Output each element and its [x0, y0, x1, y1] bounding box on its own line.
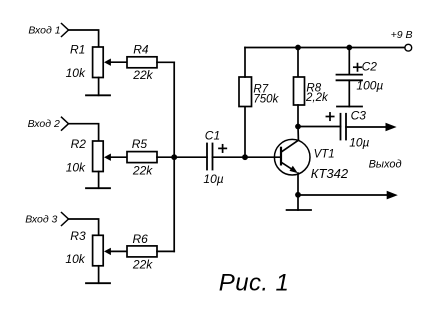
svg-text:22k: 22k	[132, 258, 153, 272]
polarity + (C2)	[354, 64, 361, 71]
svg-text:10µ: 10µ	[203, 172, 223, 186]
resistor R6	[127, 246, 157, 257]
resistor R8	[294, 77, 305, 105]
junction emitter node	[295, 192, 301, 198]
ground (R2)	[86, 172, 110, 189]
svg-text:2,2k: 2,2k	[305, 92, 329, 104]
ground (C2)	[337, 80, 362, 106]
potentiometer R2	[93, 141, 127, 172]
svg-text:R6: R6	[133, 232, 149, 246]
wire collector	[297, 127, 299, 141]
capacitor C1	[207, 144, 213, 170]
ground (R3)	[86, 266, 110, 283]
potentiometer R3	[93, 235, 127, 265]
potentiometer R1	[93, 47, 127, 78]
svg-text:750k: 750k	[253, 94, 279, 106]
ground (emitter)	[287, 195, 311, 210]
junction rail/C2	[346, 45, 352, 51]
svg-text:10µ: 10µ	[349, 135, 369, 149]
svg-text:КТ342: КТ342	[311, 166, 349, 181]
svg-text:22k: 22k	[132, 164, 153, 178]
junction base/R7 node	[242, 154, 248, 160]
svg-text:10k: 10k	[65, 252, 85, 266]
svg-text:Вход 3: Вход 3	[25, 213, 57, 225]
wire summing bus vertical	[173, 62, 175, 251]
ground (R1)	[86, 78, 110, 96]
svg-text:+9 В: +9 В	[391, 29, 413, 41]
output arrow 2	[387, 191, 398, 200]
wire +9V rail	[245, 47, 405, 49]
svg-text:Рис. 1: Рис. 1	[219, 270, 289, 297]
svg-text:C3: C3	[351, 109, 367, 123]
svg-text:VT1: VT1	[314, 149, 335, 161]
wire C3 to output arrow	[346, 126, 388, 128]
wire R4 to bus	[157, 61, 174, 63]
svg-text:R4: R4	[133, 42, 149, 56]
wire R7 lead down	[244, 107, 246, 158]
terminal +9V	[405, 44, 412, 51]
resistor R7	[239, 77, 252, 107]
wire R7 to +9V rail	[244, 48, 246, 78]
wire rail to C2	[348, 48, 350, 75]
wire input3 to R3	[69, 219, 99, 235]
junction bus node	[171, 154, 177, 160]
svg-text:Выход: Выход	[369, 158, 402, 170]
wire input2 to R2	[69, 124, 99, 141]
svg-text:10k: 10k	[66, 66, 86, 80]
svg-text:Вход 2: Вход 2	[28, 118, 60, 130]
capacitor C3	[341, 114, 347, 140]
wire bus to C1	[174, 156, 207, 158]
input connector Вход 1	[62, 24, 69, 37]
svg-text:R5: R5	[132, 137, 148, 151]
svg-text:R1: R1	[70, 42, 85, 56]
polarity + (C3)	[326, 113, 333, 120]
wire emitter node to output arrow	[298, 194, 389, 196]
wire R8 to collector node	[297, 105, 299, 127]
wire R5 to bus	[157, 156, 174, 158]
svg-text:C1: C1	[205, 128, 220, 142]
wire input1 to R1	[69, 30, 99, 47]
capacitor C2	[337, 75, 363, 81]
wire C1 to base node	[213, 156, 282, 158]
output arrow 1	[386, 123, 397, 132]
input connector Вход 2	[62, 117, 69, 130]
svg-text:Вход 1: Вход 1	[28, 24, 60, 36]
transistor VT1	[274, 139, 310, 175]
junction collector/C3	[295, 124, 301, 130]
svg-text:10k: 10k	[66, 161, 86, 175]
junction rail/R8	[295, 45, 301, 51]
svg-text:C2: C2	[362, 60, 378, 74]
wire emitter	[297, 173, 299, 195]
wire rail to R8	[297, 48, 299, 78]
wire collector node to C3	[298, 126, 341, 128]
svg-text:100µ: 100µ	[356, 79, 383, 93]
input connector Вход 3	[62, 213, 69, 226]
resistor R5	[127, 152, 157, 163]
resistor R4	[127, 57, 157, 68]
svg-text:R3: R3	[70, 229, 86, 243]
polarity + (C1)	[219, 145, 226, 152]
svg-text:22k: 22k	[132, 68, 153, 82]
wire R6 to bus	[157, 250, 174, 252]
svg-text:R2: R2	[71, 137, 87, 151]
